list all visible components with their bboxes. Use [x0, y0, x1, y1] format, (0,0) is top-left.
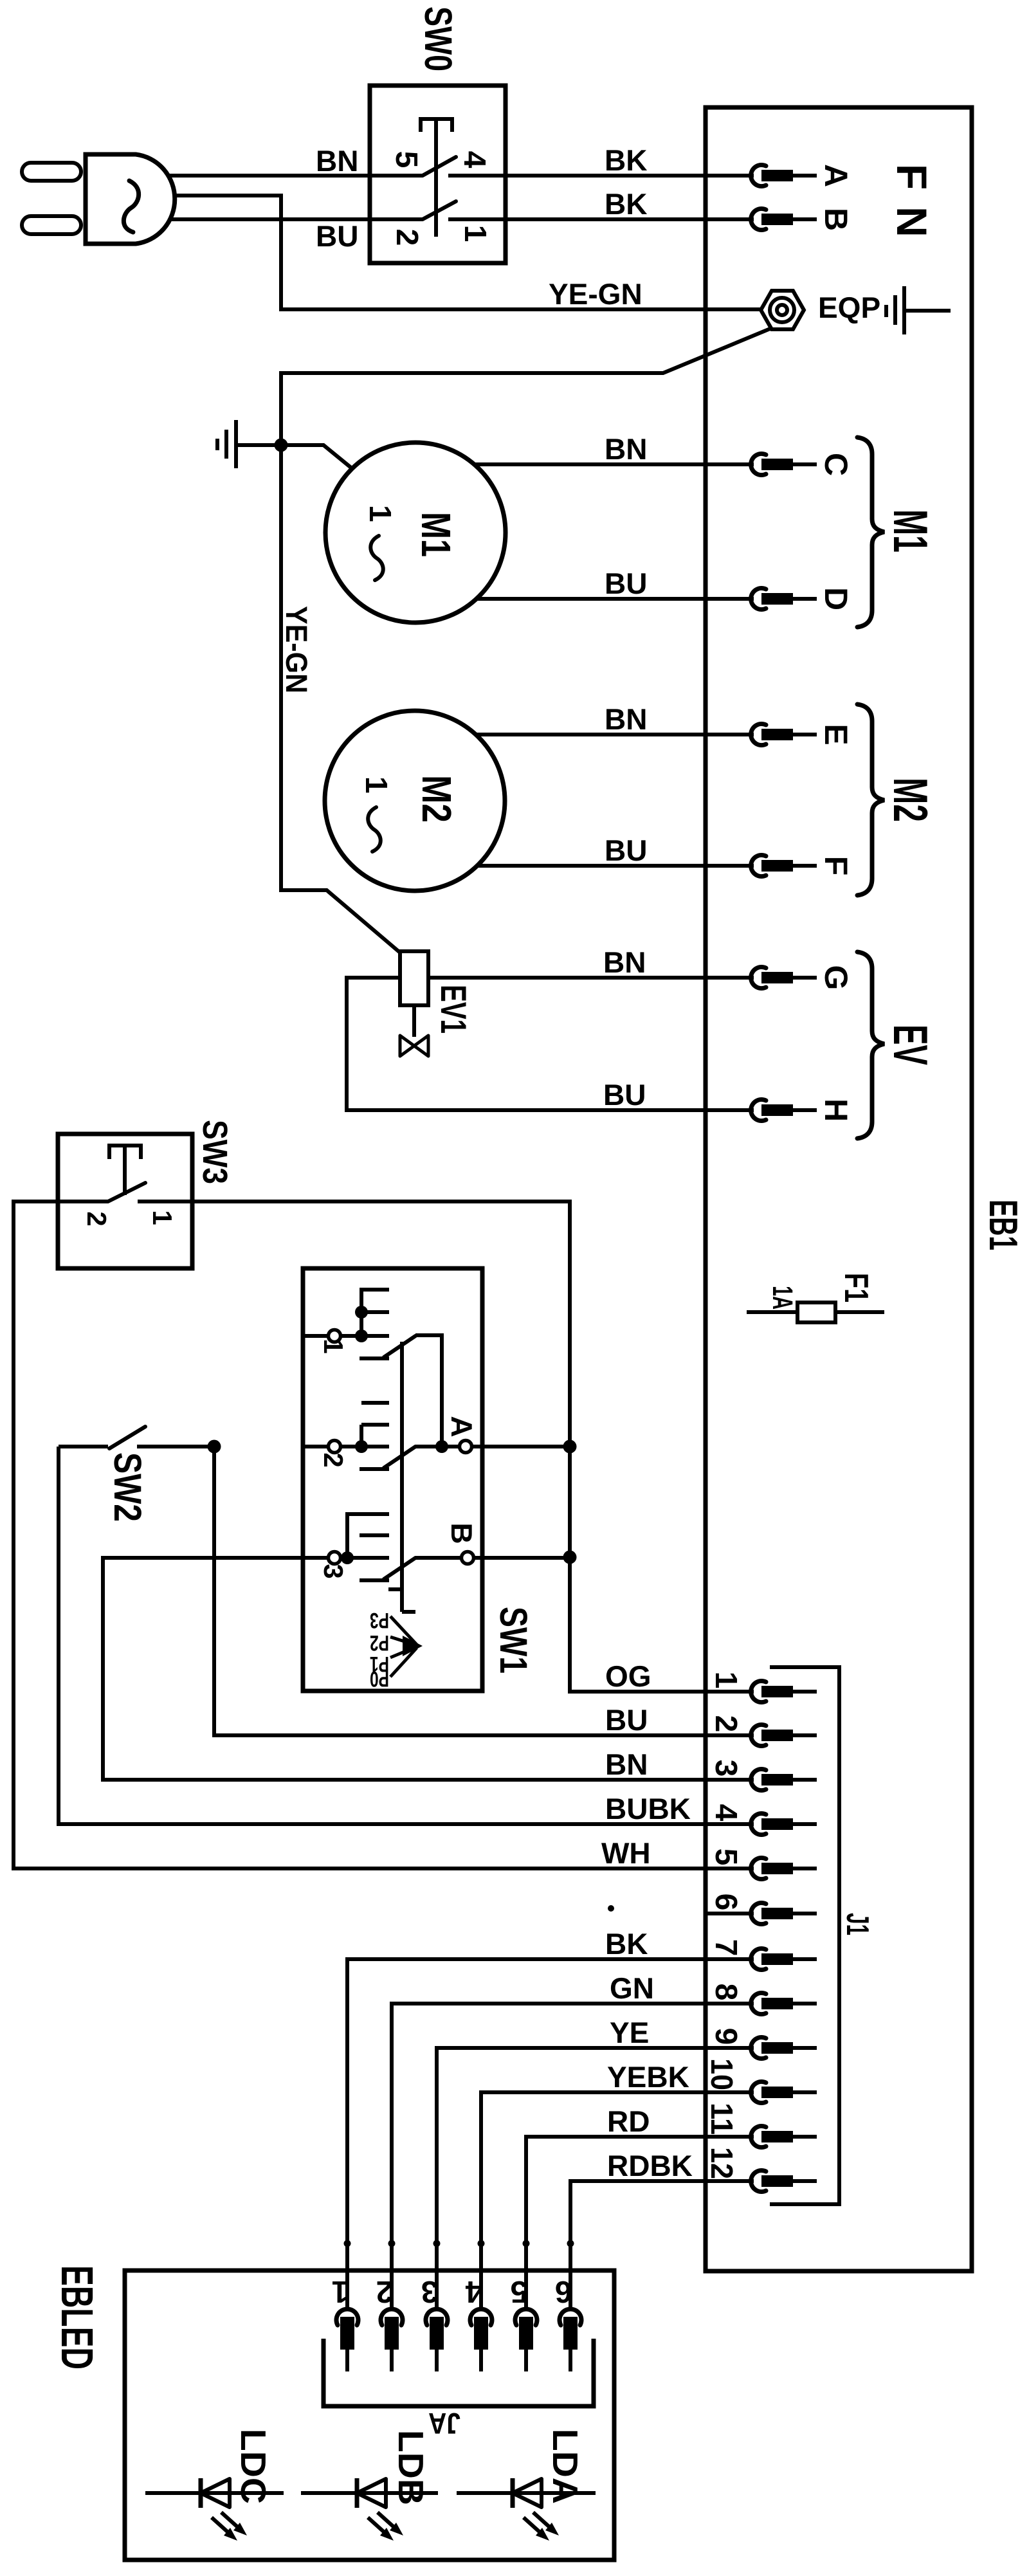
switch SW1 box [303, 1268, 482, 1691]
SW1 stage1 junction dots [355, 1306, 368, 1319]
EB1 board box [706, 107, 972, 2271]
svg-text:P2: P2 [370, 1631, 389, 1655]
SW0 actuator T-bar [421, 119, 452, 132]
terminal 4 [709, 1804, 817, 1835]
fuse F1 body [797, 1302, 835, 1322]
wire YE-GN plug to trunk [129, 196, 763, 309]
ground symbol at EQP [886, 286, 951, 334]
svg-text:M2: M2 [414, 775, 460, 823]
SW0 actuator stem [434, 119, 438, 237]
SW1 stage3 junction dot [341, 1551, 354, 1564]
svg-text:EV1: EV1 [433, 985, 474, 1034]
wire J1 row11 RD to EBLED pin5 [526, 2137, 754, 2310]
svg-text:YEBK: YEBK [607, 2060, 689, 2094]
terminal A [751, 164, 854, 187]
wire earth trunk down to M2 corner and EV1 [281, 445, 400, 953]
SW3 actuator stem [123, 1146, 127, 1195]
svg-text:1A: 1A [767, 1286, 798, 1310]
svg-text:2: 2 [390, 229, 424, 246]
node stage1-A junction [435, 1440, 448, 1453]
EBLED connector pin 2 [376, 2240, 403, 2372]
plug body [86, 154, 175, 244]
svg-text:D: D [818, 587, 854, 610]
svg-text:C: C [818, 453, 854, 476]
svg-text:1: 1 [363, 505, 397, 522]
LED LDC [145, 2429, 284, 2541]
switch SW3 box [58, 1134, 192, 1268]
svg-text:EV: EV [884, 1025, 938, 1065]
svg-text:6: 6 [709, 1894, 743, 1911]
terminal 7 [709, 1939, 817, 1970]
node earth junction [275, 439, 288, 452]
svg-text:12: 12 [704, 2147, 738, 2179]
svg-text:BN: BN [605, 1748, 648, 1781]
svg-text:1: 1 [318, 1338, 349, 1353]
wire BN plug to SW0 pin5 [129, 174, 423, 178]
terminal 2 [709, 1715, 817, 1746]
wire EQP diagonal to earth trunk [281, 328, 772, 445]
SW3 contact 2 line [58, 1200, 108, 1203]
wire J1 row8 GN to EBLED pin2 [392, 2004, 754, 2310]
svg-text:EQP: EQP [818, 291, 880, 324]
SW1 terminal 2 circle [329, 1441, 341, 1453]
wire SW2 to J1 row4 BUBK [59, 1447, 754, 1824]
EBLED connector pin 5 [511, 2240, 537, 2372]
terminal 1 [709, 1672, 817, 1703]
label dot row6 [608, 1905, 614, 1912]
svg-text:4: 4 [709, 1804, 743, 1822]
node SW1 A row junction [563, 1440, 577, 1454]
EV1 stem [412, 1005, 416, 1037]
SW1 stage 2 contacts [303, 1403, 389, 1469]
EBLED connector pin 6 [555, 2240, 581, 2372]
svg-text:2: 2 [318, 1452, 349, 1467]
EBLED connector pin 1 [332, 2240, 358, 2372]
svg-text:4: 4 [457, 151, 491, 169]
SW1 terminal 1 circle [329, 1330, 341, 1342]
EBLED connector pin 4 [465, 2240, 492, 2372]
svg-text:A: A [818, 164, 854, 187]
svg-text:BU: BU [603, 1078, 646, 1111]
svg-text:A: A [445, 1416, 478, 1437]
SW1 stage 2 lever [384, 1447, 415, 1468]
SW1 position arrowhead [403, 1636, 423, 1656]
SW3 lever [108, 1183, 145, 1201]
svg-text:BU: BU [605, 1703, 648, 1737]
svg-text:J1: J1 [840, 1913, 875, 1935]
SW1 position indicator lines [390, 1616, 417, 1677]
wire BU M2 to terminal F [477, 864, 754, 868]
svg-text:BUBK: BUBK [605, 1792, 691, 1825]
svg-text:1: 1 [359, 776, 393, 794]
svg-text:M1: M1 [884, 509, 938, 553]
SW1 detent step [388, 1587, 402, 1591]
svg-text:P3: P3 [370, 1608, 389, 1632]
svg-text:N: N [888, 206, 936, 237]
SW3 contact 1 line [138, 1200, 192, 1203]
node SW1 B row junction [563, 1551, 577, 1564]
connector J1 outline [770, 1667, 839, 2204]
EQP stud inner circle [777, 305, 787, 315]
svg-text:SW1: SW1 [492, 1607, 535, 1674]
wire BU plug to SW0 pin2 [129, 217, 423, 221]
svg-text:5: 5 [511, 2274, 528, 2308]
svg-text:2: 2 [82, 1211, 112, 1226]
terminal 6 [706, 1894, 817, 1924]
svg-text:WH: WH [601, 1836, 651, 1870]
svg-text:SW2: SW2 [106, 1452, 149, 1522]
EQP earth stud hexagon [761, 291, 804, 329]
wire SW2 branch to J1 row2 BU [214, 1447, 754, 1735]
svg-text:LDA: LDA [545, 2429, 585, 2504]
svg-text:10: 10 [704, 2058, 738, 2090]
SW1 mechanical stem [400, 1342, 404, 1612]
brace M2 group [857, 704, 884, 895]
svg-text:GN: GN [610, 1971, 654, 2005]
svg-text:SW3: SW3 [196, 1120, 234, 1184]
wire J1 row10 YEBK to EBLED pin4 [481, 2092, 754, 2310]
svg-text:7: 7 [709, 1939, 743, 1957]
SW1 A output wire [415, 1445, 570, 1448]
svg-text:1: 1 [332, 2274, 349, 2308]
terminal H [751, 1099, 854, 1122]
svg-text:LDC: LDC [233, 2429, 273, 2504]
svg-text:9: 9 [709, 2028, 743, 2045]
terminal G [751, 965, 854, 991]
svg-text:11: 11 [704, 2103, 738, 2135]
terminal 12 [704, 2147, 817, 2192]
wire earth branch to M1 [281, 445, 352, 468]
SW1 terminal 3 circle [329, 1552, 341, 1564]
svg-text:EB1: EB1 [981, 1200, 1025, 1250]
svg-text:YE-GN: YE-GN [549, 277, 642, 311]
svg-text:6: 6 [555, 2274, 572, 2308]
connector JA outline [323, 2339, 594, 2406]
terminal F [751, 855, 854, 877]
SW1 stage 3 contacts [303, 1514, 389, 1580]
node SW2 branch junction [208, 1440, 221, 1454]
svg-text:3: 3 [421, 2274, 439, 2308]
svg-text:BK: BK [605, 1927, 648, 1960]
SW1 terminal A circle [460, 1441, 472, 1453]
svg-text:H: H [818, 1099, 854, 1122]
svg-text:JA: JA [428, 2407, 460, 2440]
wire BN M1 to terminal C [474, 462, 754, 466]
svg-text:BU: BU [605, 567, 647, 600]
wire BU M1 to terminal D [477, 597, 754, 601]
SW3 actuator T-bar [109, 1146, 141, 1159]
svg-text:3: 3 [318, 1564, 349, 1578]
fuse F1 wire [747, 1310, 884, 1314]
svg-text:BN: BN [605, 432, 647, 466]
SW1 terminal B circle [462, 1552, 474, 1564]
SW1 stage 1 lever [384, 1336, 415, 1357]
svg-text:5: 5 [389, 151, 423, 169]
svg-text:RDBK: RDBK [607, 2149, 693, 2182]
svg-text:YE: YE [610, 2016, 649, 2049]
valve EV1 solenoid body [400, 951, 428, 1005]
plug prong top [22, 163, 81, 181]
svg-text:5: 5 [709, 1849, 743, 1866]
svg-text:M1: M1 [413, 512, 459, 557]
svg-text:EBLED: EBLED [52, 2265, 102, 2370]
wire J1 row9 YE to EBLED pin3 [437, 2048, 754, 2310]
terminal 9 [709, 2028, 817, 2059]
svg-text:RD: RD [607, 2105, 650, 2138]
LED LDB [301, 2430, 438, 2541]
svg-text:BN: BN [603, 945, 646, 979]
svg-text:BN: BN [316, 144, 358, 178]
svg-text:BN: BN [605, 702, 647, 736]
svg-text:4: 4 [465, 2274, 482, 2308]
svg-text:BU: BU [316, 219, 358, 253]
svg-text:2: 2 [376, 2274, 394, 2308]
plug AC tilde [123, 181, 138, 232]
svg-text:BK: BK [605, 187, 647, 221]
terminal 3 [709, 1760, 817, 1791]
EBLED board box [125, 2270, 614, 2560]
EBLED connector pin 3 [421, 2240, 448, 2372]
SW1 stage 1 contacts [303, 1290, 389, 1358]
svg-text:B: B [445, 1522, 478, 1544]
terminal E [751, 724, 854, 745]
svg-text:BK: BK [605, 143, 647, 177]
switch SW0 box [370, 86, 505, 263]
LED LDA [457, 2429, 596, 2541]
SW0 lever 5-4 [423, 157, 456, 176]
terminal D [751, 587, 854, 610]
svg-text:2: 2 [709, 1715, 743, 1733]
wire BK SW0 pin4 to terminal A [448, 174, 754, 178]
switch SW2 left wire [59, 1445, 108, 1448]
svg-text:8: 8 [709, 1984, 743, 2001]
SW1 stage 3 lever [384, 1558, 415, 1579]
wire SW1 pin3 row to J1 row3 BN [103, 1558, 754, 1780]
SW1 stage2 junction dot [355, 1440, 368, 1453]
wire BN M2 to terminal E [476, 733, 754, 736]
svg-text:P0: P0 [370, 1667, 389, 1691]
SW2 right wire [137, 1445, 214, 1448]
wire BU EV1 to terminal H [347, 978, 754, 1110]
SW2 lever [109, 1427, 145, 1448]
terminal C [751, 453, 854, 476]
SW1 stage1 output wire [415, 1335, 442, 1447]
svg-text:3: 3 [709, 1760, 743, 1777]
svg-text:BU: BU [605, 834, 647, 867]
SW1 B output wire [415, 1556, 570, 1560]
svg-text:G: G [818, 965, 854, 991]
wire J1 row7 BK to EBLED pin1 [347, 1959, 754, 2310]
terminal 11 [704, 2103, 817, 2148]
svg-text:1: 1 [709, 1672, 743, 1689]
SW0 lever 2-1 [423, 201, 456, 219]
wire BN EV1 to terminal G [428, 976, 754, 980]
EV1 valve bowtie [400, 1036, 428, 1056]
brace EV group [857, 952, 884, 1138]
wire BK SW0 pin1 to terminal B [448, 217, 754, 221]
ground symbol left of M1 [217, 420, 281, 468]
terminal 5 [709, 1849, 817, 1879]
plug prong bottom [22, 216, 81, 234]
svg-text:LDB: LDB [391, 2430, 431, 2505]
svg-text:F1: F1 [837, 1273, 875, 1302]
svg-text:YE-GN: YE-GN [280, 606, 314, 693]
svg-text:E: E [818, 724, 854, 745]
wire J1 row12 RDBK to EBLED pin6 [570, 2181, 754, 2310]
motor M2 circle [325, 711, 505, 891]
svg-text:OG: OG [605, 1659, 651, 1693]
motor M1 circle [325, 443, 505, 623]
terminal 8 [709, 1984, 817, 2014]
svg-text:B: B [818, 208, 854, 231]
svg-text:M2: M2 [884, 778, 938, 822]
brace M1 group [857, 437, 884, 627]
terminal 10 [704, 2058, 817, 2103]
svg-text:1: 1 [147, 1210, 178, 1225]
terminal B [751, 208, 854, 231]
svg-text:1: 1 [458, 225, 492, 242]
svg-text:F: F [888, 164, 936, 190]
wire SW3 pin1 to J1 row1 OG [192, 1201, 754, 1692]
EQP stud outer circle [770, 298, 794, 322]
svg-text:SW0: SW0 [417, 6, 460, 71]
svg-text:F: F [818, 856, 854, 876]
wire SW3 pin2 to J1 row5 WH [14, 1201, 754, 1868]
